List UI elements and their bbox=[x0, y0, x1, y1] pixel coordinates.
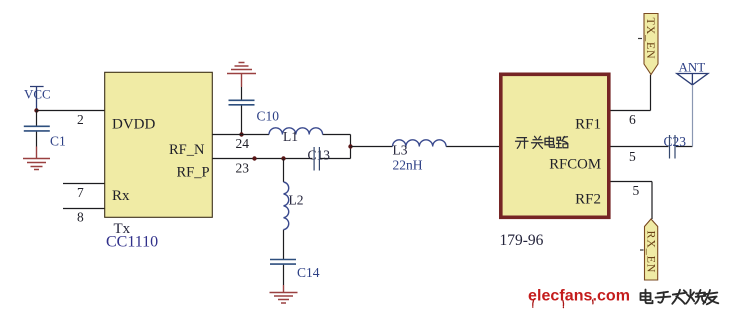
svg-text:5: 5 bbox=[629, 149, 636, 164]
svg-text:RF_N: RF_N bbox=[169, 142, 205, 158]
label 开关电路 (switch circuit) bbox=[516, 136, 568, 148]
wire to L3 bbox=[351, 146, 500, 148]
wire L2 stem bbox=[283, 159, 285, 286]
capacitor C23 bbox=[670, 135, 676, 159]
svg-text:C1: C1 bbox=[50, 134, 66, 149]
发 bbox=[672, 290, 686, 304]
wire C1 lead bbox=[36, 111, 38, 147]
capacitor C10 bbox=[229, 100, 255, 105]
svg-text:RF1: RF1 bbox=[575, 117, 601, 133]
svg-text:RFCOM: RFCOM bbox=[549, 157, 601, 173]
子 bbox=[656, 292, 671, 303]
svg-text:22nH: 22nH bbox=[393, 158, 423, 173]
ground (below C1) bbox=[23, 147, 50, 170]
svg-text:5: 5 bbox=[633, 183, 640, 198]
antenna ANT bbox=[677, 74, 708, 85]
svg-text:C14: C14 bbox=[297, 265, 320, 280]
inductor L2 bbox=[284, 182, 289, 230]
路 bbox=[556, 137, 568, 148]
svg-text:23: 23 bbox=[236, 161, 250, 176]
烧 bbox=[686, 290, 706, 304]
IC U2 switch box bbox=[501, 74, 609, 217]
友 bbox=[703, 290, 718, 304]
watermark 电子发烧友 bbox=[641, 290, 719, 305]
svg-text:24: 24 bbox=[236, 136, 250, 151]
wire pin24 bbox=[212, 134, 350, 136]
svg-text:Rx: Rx bbox=[112, 188, 130, 204]
svg-text:L3: L3 bbox=[393, 142, 408, 157]
svg-text:CC1110: CC1110 bbox=[106, 233, 158, 250]
电 bbox=[641, 290, 653, 304]
node: VCC junction bbox=[34, 108, 38, 112]
node: pin24/C10 junction bbox=[239, 132, 243, 136]
wire vertical joiner bbox=[350, 135, 352, 159]
ground (below C14) bbox=[270, 285, 298, 303]
wire RFCOM pin5 bbox=[611, 146, 693, 148]
wire pin6 bbox=[611, 75, 651, 111]
svg-text:ANT: ANT bbox=[679, 60, 706, 75]
svg-text:RF_P: RF_P bbox=[177, 165, 210, 181]
svg-text:elecfans.com: elecfans.com bbox=[528, 288, 630, 305]
svg-text:RX_EN: RX_EN bbox=[644, 231, 658, 274]
svg-text:L2: L2 bbox=[289, 193, 304, 208]
tick mark (RX_EN anchor) bbox=[640, 249, 644, 251]
logo ink drips bbox=[533, 300, 593, 308]
svg-text:TX_EN: TX_EN bbox=[644, 18, 658, 60]
wire C10 stem bbox=[241, 87, 243, 135]
svg-text:8: 8 bbox=[77, 209, 84, 224]
port flag TX_EN bbox=[644, 14, 658, 75]
inductor L1 bbox=[269, 128, 323, 135]
capacitor C13 bbox=[314, 147, 319, 171]
port flag RX_EN bbox=[644, 219, 658, 280]
antenna lead bbox=[692, 85, 694, 147]
电 bbox=[545, 136, 554, 147]
关 bbox=[532, 136, 544, 148]
开 bbox=[516, 138, 529, 149]
ground (top, above C10) bbox=[227, 63, 256, 88]
svg-text:179-96: 179-96 bbox=[500, 232, 544, 249]
svg-text:2: 2 bbox=[77, 112, 84, 127]
svg-text:RF2: RF2 bbox=[575, 192, 601, 208]
wire pin7 bbox=[63, 183, 105, 185]
power symbol VCC bbox=[30, 86, 44, 109]
svg-text:7: 7 bbox=[77, 185, 84, 200]
inductor L3 bbox=[393, 140, 447, 147]
wire RF2 pin5 bbox=[611, 182, 653, 220]
wire pin8 bbox=[63, 208, 105, 210]
IC U1 CC1110 body bbox=[105, 72, 213, 217]
svg-text:C10: C10 bbox=[257, 109, 280, 124]
svg-text:L1: L1 bbox=[283, 129, 298, 144]
wire pin23 bbox=[212, 158, 350, 160]
wire pin2 bbox=[37, 110, 106, 112]
capacitor C1 bbox=[24, 126, 50, 131]
capacitor C14 bbox=[270, 260, 296, 265]
node: junction on pin23 wire bbox=[252, 156, 256, 160]
svg-text:6: 6 bbox=[629, 112, 636, 127]
svg-text:VCC: VCC bbox=[24, 87, 51, 102]
node: L2 branch junction bbox=[281, 156, 285, 160]
svg-text:DVDD: DVDD bbox=[112, 117, 155, 133]
tick mark (TX_EN anchor) bbox=[638, 38, 642, 40]
node: joiner junction bbox=[348, 144, 352, 148]
